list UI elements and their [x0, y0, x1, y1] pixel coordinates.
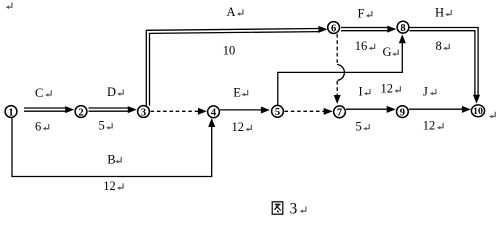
svg-text:E: E	[233, 85, 241, 99]
svg-text:8: 8	[436, 39, 442, 53]
value 12 of G with paragraph mark	[381, 82, 401, 96]
label E with paragraph mark	[233, 85, 247, 99]
wire: activity I line 7-9	[346, 108, 388, 110]
arrowhead of B at node 4 bottom	[208, 118, 215, 127]
value 5 of I with paragraph mark	[356, 120, 370, 134]
svg-text:4: 4	[211, 108, 217, 119]
value 12 of J with paragraph mark	[423, 119, 443, 133]
arrowhead of J at node 10	[462, 106, 471, 113]
label F with paragraph mark	[358, 7, 372, 21]
arrowhead of C at node 2	[65, 106, 74, 113]
wire: activity D double line 2-3	[89, 108, 130, 111]
node 4	[208, 106, 220, 119]
node 6	[328, 22, 340, 35]
node 5	[272, 105, 284, 118]
node 10	[471, 105, 495, 118]
node 7	[334, 106, 346, 119]
paragraph mark top-left	[6, 3, 12, 10]
label D with paragraph mark	[107, 85, 123, 99]
svg-text:D: D	[107, 85, 116, 99]
node 9	[397, 106, 409, 119]
arrowhead of E at node 5	[261, 107, 270, 114]
svg-text:2: 2	[78, 107, 83, 118]
wire: activity E line 4-5	[220, 109, 262, 111]
value 6 of C with paragraph mark	[35, 119, 49, 133]
node 8	[397, 21, 409, 34]
svg-text:J: J	[423, 84, 428, 98]
value 8 of H with paragraph mark	[436, 39, 450, 53]
svg-text:6: 6	[331, 23, 336, 34]
arrowhead of A at node 6	[318, 26, 327, 33]
arrowhead of H at node 10 top	[473, 95, 480, 104]
arrowhead of dummy at node 7	[324, 108, 333, 115]
arrowhead of dummy at node 7 top	[334, 95, 341, 104]
wire: activity G path 5 up right up to 8	[278, 43, 403, 105]
arrowhead of G at node 8 bottom	[399, 34, 406, 43]
svg-text:10: 10	[473, 106, 484, 116]
svg-text:F: F	[358, 7, 365, 21]
arrowhead of F at node 8	[387, 26, 396, 33]
node 3	[138, 106, 150, 119]
node 1	[5, 106, 17, 119]
wire: dashed dummy 3-4	[151, 110, 201, 112]
svg-text:12: 12	[381, 82, 394, 96]
label C with paragraph mark	[35, 86, 51, 100]
arrowhead of I at node 9	[387, 106, 396, 113]
wire: activity H double line 8 right and down to 10	[410, 28, 479, 97]
label J with paragraph mark	[423, 84, 436, 98]
svg-text:A: A	[227, 5, 236, 19]
wire: activity F double line 6-8	[341, 28, 389, 31]
svg-text:G: G	[383, 45, 392, 59]
caption: hand-drawn CJK glyph tu (figure)	[272, 202, 283, 214]
value 5 of D with paragraph mark	[99, 119, 113, 133]
svg-text:12: 12	[423, 119, 436, 133]
arrowhead of dummy at node 4	[198, 108, 207, 115]
svg-text:7: 7	[337, 108, 342, 119]
svg-text:3: 3	[290, 201, 298, 218]
caption: figure number 3 with paragraph mark	[290, 201, 306, 218]
svg-text:I: I	[359, 84, 363, 98]
svg-text:9: 9	[400, 107, 405, 118]
label H with paragraph mark	[435, 5, 451, 19]
svg-text:C: C	[35, 86, 43, 100]
svg-text:H: H	[435, 5, 444, 19]
value 16 of F with paragraph mark	[355, 39, 375, 53]
value 12 of B with paragraph mark	[103, 179, 123, 193]
svg-text:5: 5	[356, 120, 362, 134]
svg-text:10: 10	[223, 44, 236, 58]
svg-text:16: 16	[355, 39, 368, 53]
wire: activity C double line 1-2	[24, 108, 67, 111]
svg-text:8: 8	[400, 23, 405, 34]
node 2	[75, 106, 87, 119]
wire: activity B path 1 down right up to 4	[12, 118, 212, 177]
label A with paragraph mark	[227, 5, 243, 19]
wire: activity A double line 3 up and right to 6	[146, 29, 319, 106]
label I with paragraph mark	[359, 84, 370, 98]
arrowhead of D at node 3	[128, 106, 137, 113]
value 12 of E with paragraph mark	[232, 120, 252, 134]
wire: dashed dummy 5-7	[285, 110, 326, 112]
wire: activity J line 9-10	[409, 108, 463, 110]
svg-text:5: 5	[275, 107, 280, 118]
label G with paragraph mark	[383, 45, 399, 59]
svg-text:1: 1	[8, 107, 13, 118]
wire: dashed dummy 6-7 with hop over G line	[337, 34, 344, 96]
svg-text:12: 12	[103, 179, 116, 193]
label B with paragraph mark	[107, 152, 121, 166]
svg-text:6: 6	[35, 119, 41, 133]
svg-text:12: 12	[232, 120, 245, 134]
svg-text:3: 3	[141, 107, 146, 118]
svg-text:5: 5	[99, 119, 105, 133]
svg-text:B: B	[107, 152, 115, 166]
